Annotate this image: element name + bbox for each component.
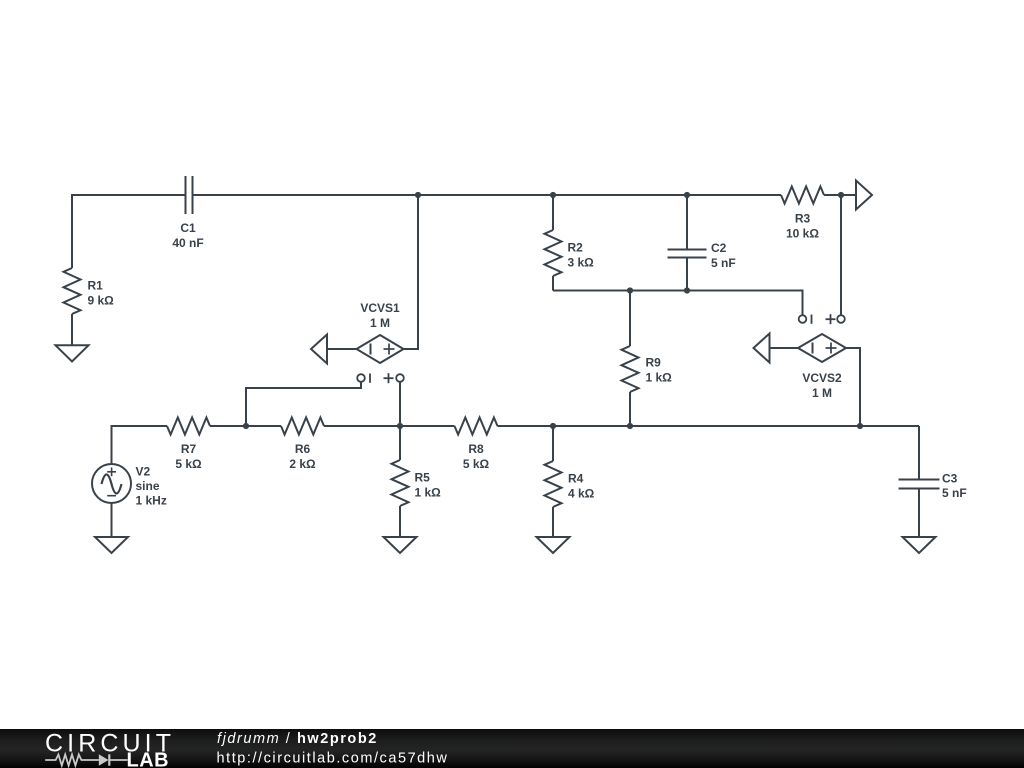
node top-R3out: [838, 192, 844, 198]
capacitor C2: [668, 195, 707, 291]
node mid-R9: [627, 287, 633, 293]
svg-text:R7: R7: [181, 442, 197, 456]
svg-text:http://circuitlab.com/ca57dhw: http://circuitlab.com/ca57dhw: [217, 750, 449, 766]
wire R6 to R8: [324, 425, 455, 427]
svg-text:V2: V2: [136, 465, 151, 479]
ground (R1): [56, 345, 89, 361]
resistor R1: [64, 268, 81, 314]
svg-text:10 kΩ: 10 kΩ: [786, 227, 819, 241]
wire V2 to ground: [111, 503, 113, 537]
svg-text:5 kΩ: 5 kΩ: [463, 457, 490, 471]
junction dots: [243, 192, 863, 429]
node bottom-R5: [397, 423, 403, 429]
capacitor C1: [186, 176, 193, 214]
voltage source V2: [92, 464, 131, 503]
footer bar: [0, 729, 1024, 768]
wire R3 to output: [824, 194, 856, 196]
node A bottom: [243, 423, 249, 429]
svg-text:R8: R8: [468, 442, 484, 456]
node bottom-R9: [627, 423, 633, 429]
resistor R5: [392, 426, 409, 537]
svg-text:sine: sine: [136, 479, 160, 493]
wire R7 to R6: [210, 425, 281, 427]
node bottom-R4: [550, 423, 556, 429]
wire top horizontal main segment: [194, 194, 782, 196]
resistor R6: [281, 418, 324, 435]
resistor R3: [781, 187, 824, 204]
svg-text:5 kΩ: 5 kΩ: [175, 457, 202, 471]
ground (R4): [537, 537, 570, 553]
resistor R4: [545, 426, 562, 537]
wire bottom horizontal V2 to R7: [112, 426, 168, 464]
svg-text:R4: R4: [568, 472, 584, 486]
svg-text:40 nF: 40 nF: [172, 236, 203, 250]
svg-text:2 kΩ: 2 kΩ: [289, 457, 316, 471]
svg-text:1 M: 1 M: [370, 316, 390, 330]
svg-text:fjdrumm / hw2prob2: fjdrumm / hw2prob2: [217, 731, 378, 747]
capacitor C3: [899, 426, 940, 537]
svg-text:1 M: 1 M: [812, 386, 832, 400]
wire VCVS1 minus terminal to node A: [246, 381, 361, 426]
svg-text:1 kHz: 1 kHz: [136, 494, 167, 508]
svg-text:1 kΩ: 1 kΩ: [415, 486, 442, 500]
controlled voltage source VCVS1: [311, 195, 418, 364]
resistor R9: [622, 291, 639, 427]
svg-text:C2: C2: [711, 241, 727, 255]
logo resistor-diode glyph: [45, 755, 127, 766]
wire R1 to ground: [71, 314, 73, 345]
svg-text:C3: C3: [942, 472, 958, 486]
node top-C2: [684, 192, 690, 198]
logo diode: [99, 754, 109, 765]
VCVS2 control terminals: [799, 314, 845, 324]
controlled voltage source VCVS2: [754, 334, 861, 427]
node bottom-VCVS2: [857, 423, 863, 429]
svg-text:VCVS1: VCVS1: [360, 301, 400, 315]
resistor R2: [545, 195, 562, 291]
svg-text:R6: R6: [295, 442, 311, 456]
svg-text:VCVS2: VCVS2: [802, 371, 842, 385]
svg-text:R2: R2: [568, 241, 584, 255]
svg-text:R1: R1: [88, 279, 104, 293]
svg-text:R3: R3: [795, 212, 811, 226]
ground (R5): [384, 537, 417, 553]
wire VCVS2 plus terminal up to top wire: [840, 195, 842, 316]
svg-text:5 nF: 5 nF: [711, 256, 736, 270]
node mid-C2: [684, 287, 690, 293]
node top-VCVS1: [415, 192, 421, 198]
VCVS1 control terminals: [357, 373, 404, 383]
svg-text:LAB: LAB: [127, 750, 170, 768]
node top-R2: [550, 192, 556, 198]
wire mid horizontal (R2 bottom to VCVS2 minus terminal): [553, 291, 803, 316]
svg-text:4 kΩ: 4 kΩ: [568, 487, 595, 501]
wire top horizontal left segment: [72, 195, 185, 268]
ground (V2): [95, 537, 128, 553]
svg-text:5 nF: 5 nF: [942, 486, 967, 500]
svg-text:C1: C1: [180, 221, 196, 235]
resistor R8: [455, 418, 498, 435]
resistor R7: [167, 418, 210, 435]
svg-text:3 kΩ: 3 kΩ: [568, 256, 595, 270]
wire R8 to C3: [498, 425, 920, 427]
ground (C3): [903, 537, 936, 553]
svg-text:R5: R5: [415, 471, 431, 485]
wire VCVS1 plus terminal down: [399, 381, 401, 426]
output terminal arrow: [856, 181, 872, 210]
svg-text:9 kΩ: 9 kΩ: [88, 294, 115, 308]
svg-text:1 kΩ: 1 kΩ: [646, 371, 673, 385]
svg-text:R9: R9: [646, 356, 662, 370]
